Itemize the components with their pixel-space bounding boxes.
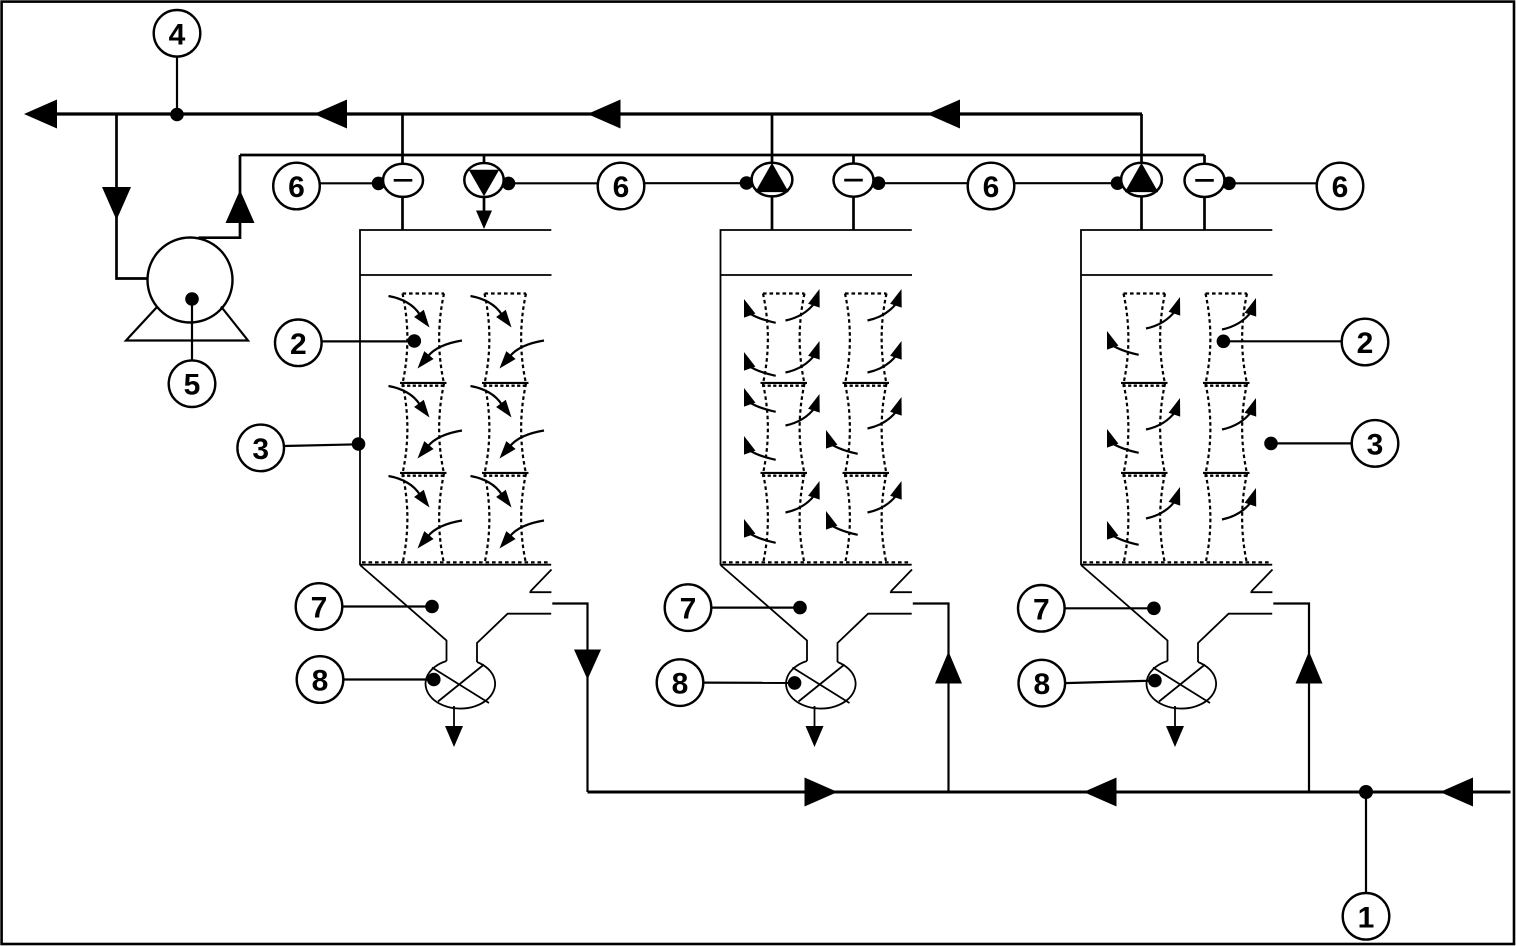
fan / reverse-air blower casing [148, 238, 233, 323]
wire 6-2 to valve ch2 [644, 182, 752, 184]
wire stem to label 1 [1365, 792, 1367, 893]
wire damper ch3 to 6-4 [1224, 182, 1316, 184]
chamber 1 bag bottom dashed edge [362, 561, 549, 563]
filter chamber 3 shell [1081, 230, 1273, 565]
arrowhead ch1 reverse into chamber [476, 211, 492, 230]
wire fan suction drop [117, 114, 190, 279]
chamber 2 filter bag column at x=763 [761, 294, 808, 564]
svg-text:4: 4 [169, 18, 186, 51]
arrowhead exhaust mid-3 [927, 100, 960, 129]
dot label 7 chamber 3 [1147, 602, 1161, 616]
wire ch1 reverse stub lower [483, 197, 486, 211]
label circle 8 chamber 2 [657, 659, 704, 706]
wire valve ch1 to 6-2 [504, 182, 598, 184]
chamber 2 hopper [721, 565, 912, 662]
svg-text:6: 6 [288, 171, 305, 204]
dot label 8 chamber 3 [1148, 674, 1162, 688]
junction dot raw-gas inlet [1359, 785, 1373, 799]
arrowhead ch3 inlet upward [1296, 652, 1323, 684]
chamber 2 upward filtering-flow arrows [744, 289, 902, 543]
wire fan discharge [199, 155, 241, 238]
wire label 8 chamber 2 [703, 681, 794, 684]
chamber 3 filter bag column at x=1205.5 [1203, 294, 1250, 564]
svg-text:7: 7 [680, 593, 697, 626]
rotary discharge valve chamber 1 [426, 661, 496, 709]
arrowhead manifold leftward flow right [1440, 778, 1473, 807]
chamber 2 broken-edge cut symbol [890, 570, 912, 593]
rotary discharge valve chamber 2 [786, 661, 856, 709]
label circle 5 [169, 360, 216, 407]
arrowhead ch1 duct downward [574, 650, 601, 680]
arrowhead ch2 inlet upward [935, 652, 962, 684]
chamber 3 broken-edge cut symbol [1250, 570, 1272, 593]
wire label 8 chamber 1 [343, 678, 434, 680]
label circle 3 right [1352, 420, 1399, 467]
valve ch1 outlet damper closed [383, 164, 423, 197]
label circle 2 right [1342, 319, 1389, 366]
arrowhead exhaust left end [24, 100, 57, 129]
filter chamber 1 shell [360, 230, 552, 565]
wire ch1 hopper side duct [552, 604, 587, 793]
chamber 1 broken-edge cut symbol [529, 570, 551, 593]
dot label 8 chamber 2 [788, 676, 802, 690]
wire ch1 outlet riser lower [401, 197, 404, 231]
dot label 2 left [408, 334, 422, 348]
junction dot on header at 4 [170, 108, 184, 122]
dot label 7 chamber 1 [425, 600, 439, 614]
chamber 3 bag bottom dashed edge [1083, 561, 1270, 563]
valve ch1 reverse-air open [464, 163, 503, 197]
label circle 6 first [273, 163, 320, 210]
dot label 7 chamber 2 [793, 601, 807, 615]
dot label 3 right [1264, 437, 1278, 451]
valve ch3 outlet open [1121, 163, 1162, 197]
label circle 6 third [968, 163, 1015, 210]
wire raw-gas bottom manifold [588, 791, 1511, 794]
wire label 2 left [322, 340, 414, 342]
label circle 8 chamber 3 [1019, 660, 1066, 707]
wire 6-3 to valve ch3 [1014, 182, 1122, 184]
wire ch2 outlet riser [771, 114, 774, 230]
svg-text:5: 5 [184, 369, 201, 402]
svg-text:2: 2 [1357, 327, 1374, 360]
svg-text:3: 3 [1367, 428, 1384, 461]
filter chamber 2 shell [721, 230, 913, 565]
svg-text:6: 6 [613, 171, 630, 204]
dot label 2 right [1217, 335, 1231, 349]
wire ch3 inlet duct [1273, 604, 1309, 793]
valve ch3 reverse damper closed [1185, 164, 1225, 197]
chamber 1 filter bag column at x=484.5 [482, 294, 529, 564]
arrowhead fan discharge up [226, 190, 255, 223]
wire ch3 outlet riser [1140, 114, 1143, 230]
wire 6-1 to damper ch1 [320, 182, 384, 184]
dot at ch2 outlet valve [740, 176, 754, 190]
chamber 1 downward cleaning-flow arrows [389, 296, 545, 549]
label circle 8 chamber 1 [297, 656, 344, 703]
svg-text:6: 6 [983, 171, 1000, 204]
svg-text:3: 3 [252, 433, 269, 466]
svg-text:8: 8 [1033, 668, 1050, 701]
label circle 6 second [598, 163, 645, 210]
svg-text:6: 6 [1332, 171, 1349, 204]
dot label 8 chamber 1 [427, 673, 441, 687]
valve ch2 reverse damper closed [834, 164, 874, 197]
wire label 7 chamber 1 [342, 605, 432, 607]
chamber 3 hopper [1081, 565, 1272, 662]
wire ch2 inlet duct [913, 604, 949, 793]
rotary valve discharge arrow chamber 3 [1174, 706, 1176, 727]
chamber 1 hopper [360, 565, 551, 662]
svg-text:8: 8 [312, 665, 329, 698]
wire stem to label 5 [191, 299, 193, 361]
rotary valve discharge arrow chamber 2 [814, 706, 816, 727]
label circle 7 chamber 1 [296, 583, 343, 630]
arrowhead exhaust mid-1 [314, 100, 347, 129]
rotary valve discharge arrow chamber 1 [453, 706, 455, 727]
dot on fan for label 5 [185, 292, 199, 306]
valve ch2 outlet open [752, 163, 793, 197]
wire main exhaust header [57, 112, 1142, 115]
dot label 3 left [352, 437, 366, 451]
wire ch1 outlet riser upper [401, 114, 404, 164]
label circle 2 left [275, 320, 322, 367]
label circle 3 left [237, 425, 284, 472]
wire label 3 right [1271, 442, 1352, 444]
svg-text:8: 8 [672, 668, 689, 701]
dot at ch2 reverse damper [872, 176, 886, 190]
dot at ch1 reverse valve [502, 177, 516, 191]
arrowhead exhaust mid-2 [588, 100, 621, 129]
svg-text:7: 7 [1033, 593, 1050, 626]
label circle 4 [154, 10, 201, 57]
svg-text:7: 7 [311, 592, 328, 625]
chamber 3 upward filtering-flow arrows [1107, 297, 1256, 545]
wire stem from label 4 [176, 57, 178, 114]
wire label 7 chamber 3 [1065, 607, 1154, 609]
arrowhead manifold rightward flow [805, 778, 838, 807]
dot at ch1 outlet damper [372, 177, 386, 191]
wire damper ch2 to 6-3 [873, 182, 967, 184]
rotary discharge valve chamber 3 [1147, 661, 1217, 709]
chamber 2 filter bag column at x=845 [843, 294, 890, 564]
label circle 6 fourth [1317, 163, 1364, 210]
svg-text:2: 2 [290, 328, 307, 361]
chamber 2 bag bottom dashed edge [723, 561, 910, 563]
wire ch2 reverse stub [852, 155, 855, 230]
arrowhead fan suction down [102, 187, 131, 220]
label circle 7 chamber 3 [1018, 585, 1065, 632]
fan mounting base [126, 307, 248, 341]
wire label 8 chamber 3 [1065, 681, 1155, 684]
wire reverse-air supply line [240, 154, 1205, 157]
dot at ch3 reverse damper [1222, 177, 1236, 191]
chamber 3 filter bag column at x=1123.5 [1121, 294, 1168, 564]
wire label 7 chamber 2 [711, 606, 800, 608]
wire ch1 reverse stub upper [483, 155, 486, 164]
wire label 2 right [1223, 340, 1341, 342]
wire ch3 reverse stub [1203, 155, 1206, 230]
label circle 1 [1343, 893, 1390, 940]
svg-text:1: 1 [1358, 901, 1375, 934]
chamber 1 filter bag column at x=402.5 [400, 294, 447, 564]
label circle 7 chamber 2 [665, 584, 712, 631]
arrowhead manifold leftward flow mid [1084, 778, 1117, 807]
dot at ch3 outlet valve [1111, 176, 1125, 190]
wire label 3 left [284, 444, 359, 446]
